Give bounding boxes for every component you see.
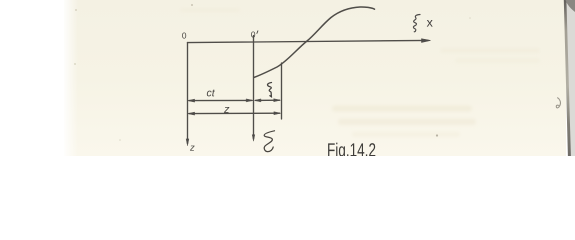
z dimension arrow [189,112,280,114]
label 0 (origin) [182,33,186,39]
page edge dark slanted line [564,0,571,156]
vertical marker line at point x [281,63,283,119]
caption Fig.14.2 [328,143,375,161]
page right edge shadow [566,0,575,156]
scanned paper background [64,0,566,156]
label x (axis, top-right) [427,20,433,27]
xi axis arrowhead (down) [252,135,255,141]
x axis [188,40,429,42]
xi dimension arrow [256,99,280,101]
label z (dimension) [224,107,229,113]
z axis vertical line (left) [187,43,189,144]
label xi squiggle (top-right, near x axis) [413,15,420,32]
faint specks [75,9,77,11]
faint print bleed-through bands (right-bottom) [180,8,540,137]
small curl artifact right side [556,98,560,108]
x axis arrowhead [422,39,431,43]
ct dimension arrow [189,99,252,101]
z axis arrowhead (down) [186,139,189,146]
label 0' (moving origin) [251,31,255,37]
label xi squiggle (small, above xi arrow) [268,83,272,97]
wave curve [254,7,375,78]
dark smudge top-right corner [566,0,575,12]
label z (axis, bottom-left) [190,146,195,151]
label ct [207,90,215,97]
label xi squiggle (bottom, xi axis) [264,131,274,152]
xi axis vertical line (middle, at 0') [253,36,255,140]
